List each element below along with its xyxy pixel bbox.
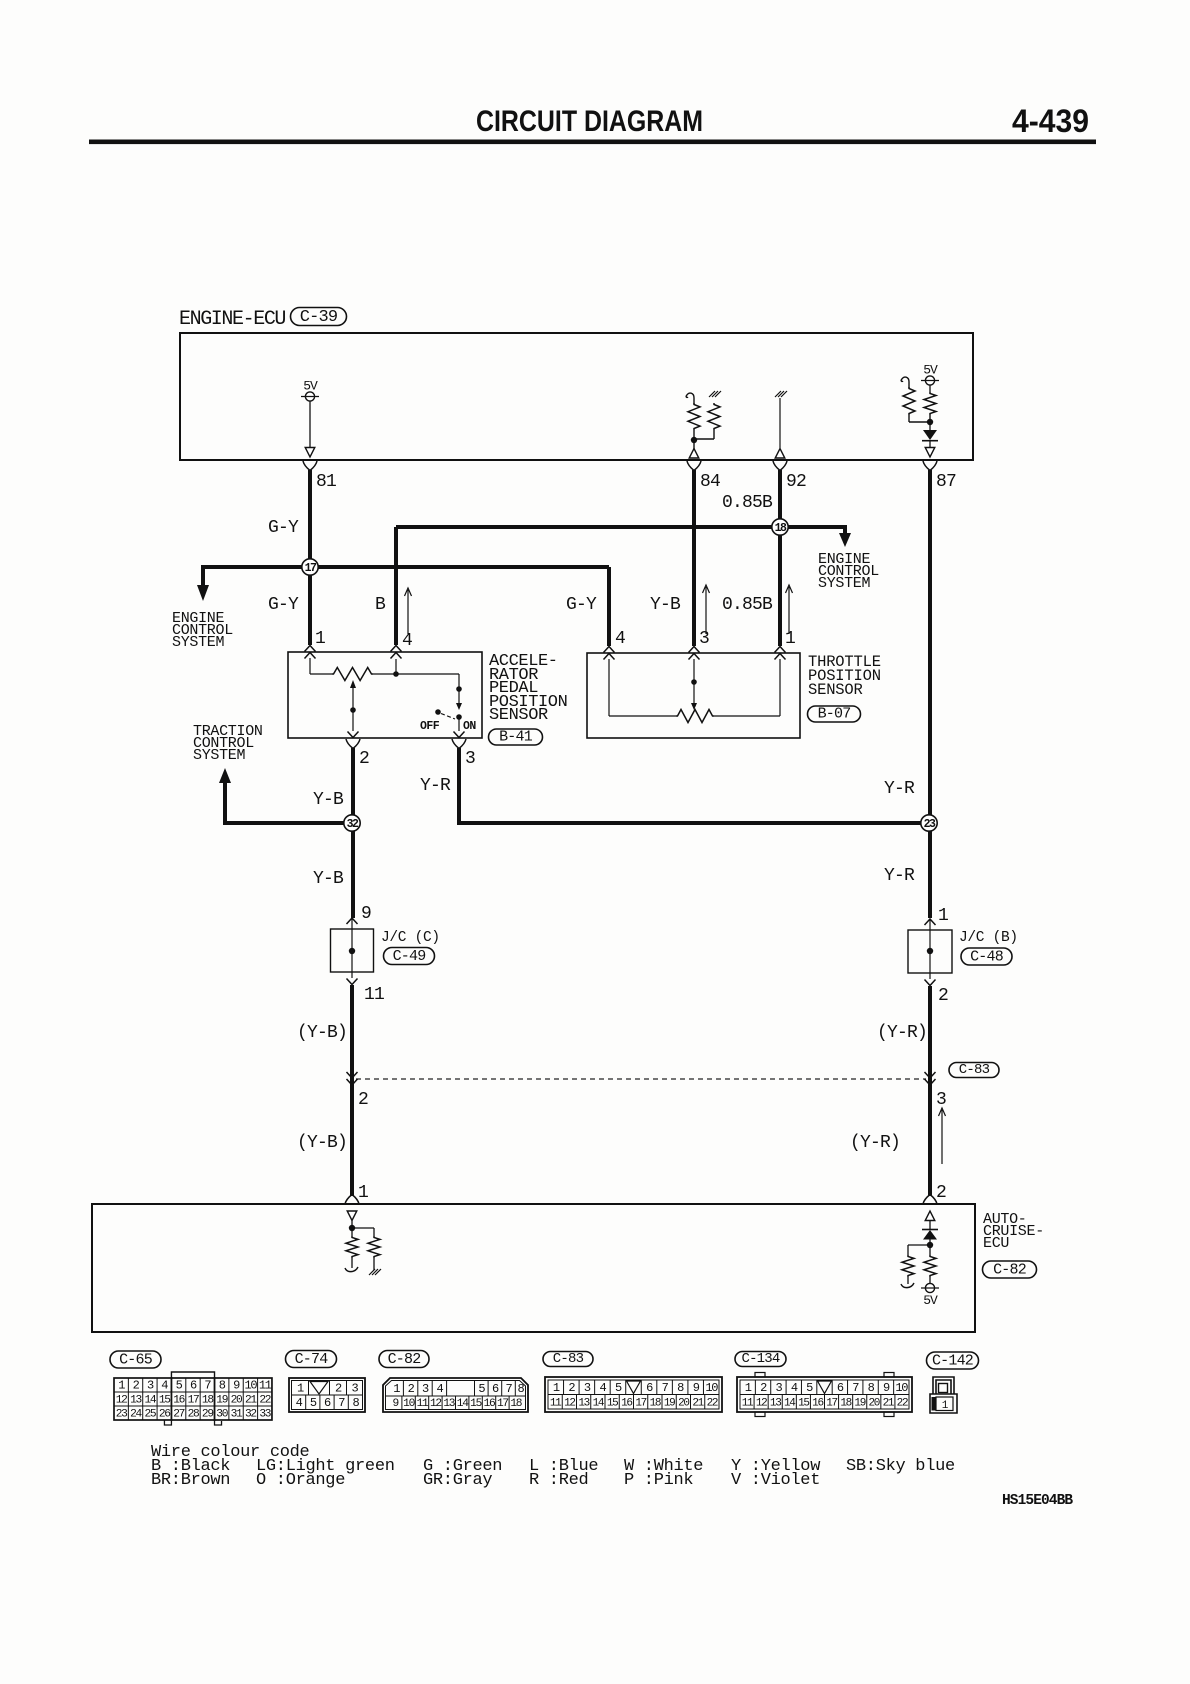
svg-text:26: 26 (159, 1409, 170, 1421)
svg-text:16: 16 (812, 1398, 823, 1410)
connector ref C-82 right (983, 1261, 1037, 1278)
header rule (89, 140, 1096, 145)
svg-text:4-439: 4-439 (1012, 103, 1089, 139)
svg-text:32: 32 (347, 818, 359, 831)
junction 17 (302, 559, 318, 575)
svg-text:2: 2 (936, 1183, 946, 1203)
svg-text:14: 14 (144, 1395, 156, 1407)
svg-text:5V: 5V (923, 363, 938, 378)
svg-text:1: 1 (785, 629, 795, 649)
resistor pair AC pin 2 (902, 1255, 914, 1277)
resistor pair at pin 87 (924, 392, 936, 415)
svg-text:18: 18 (840, 1398, 851, 1410)
J/C(C) junction dot (349, 948, 355, 954)
arrow to traction control system (219, 768, 231, 783)
J/C(C) pin 11 chevron (347, 979, 358, 985)
wire B horizontal from APS pin 4 to junction 18 and ECS arrow (396, 525, 845, 529)
svg-text:ECU: ECU (983, 1235, 1009, 1252)
svg-text:C-48: C-48 (970, 949, 1004, 966)
TPS pin 1 chevrons (775, 647, 786, 653)
svg-text:16: 16 (173, 1395, 184, 1407)
svg-text:18: 18 (510, 1398, 521, 1410)
svg-text:J/C (B): J/C (B) (959, 930, 1018, 946)
APS internal wiring (309, 658, 311, 674)
svg-text:92: 92 (786, 472, 806, 492)
svg-text:5V: 5V (923, 1293, 938, 1308)
svg-text:J/C (C): J/C (C) (381, 930, 440, 946)
junction dot pin 84 net (691, 437, 697, 443)
connector ref B-07 (808, 706, 861, 722)
J/C(B) pin 2 chevron (925, 980, 936, 986)
svg-text:C-83: C-83 (553, 1351, 584, 1367)
svg-text:81: 81 (316, 472, 336, 492)
svg-text:SB:Sky blue: SB:Sky blue (846, 1457, 955, 1476)
svg-text:22: 22 (897, 1398, 908, 1410)
svg-text:1: 1 (315, 629, 325, 649)
APS pin 2 exit (346, 739, 360, 749)
svg-text:(Y-B): (Y-B) (297, 1023, 347, 1043)
switch OFF contact and blade (435, 709, 441, 715)
connector C-142 drawing (933, 1377, 954, 1394)
svg-text:20: 20 (678, 1398, 689, 1410)
svg-text:18: 18 (202, 1395, 213, 1407)
APS potentiometer resistor (332, 668, 373, 681)
svg-text:15: 15 (607, 1398, 618, 1410)
wire 5V to pin 81 (309, 401, 311, 447)
svg-text:P :Pink: P :Pink (624, 1471, 693, 1490)
output arrow pin 81 (305, 448, 315, 458)
connector ref C-49 (384, 948, 435, 965)
svg-text:11: 11 (550, 1398, 562, 1410)
svg-text:10: 10 (705, 1381, 718, 1395)
svg-text:BR:Brown: BR:Brown (151, 1471, 230, 1490)
svg-text:23: 23 (924, 818, 936, 831)
TPS potentiometer resistor (676, 710, 714, 723)
TPS pin 4 chevrons (604, 647, 615, 653)
svg-text:87: 87 (936, 472, 956, 492)
svg-text:G-Y: G-Y (268, 518, 299, 538)
AUTO-CRUISE-ECU box C-82 (92, 1204, 975, 1332)
connector ref C-48 (961, 948, 1012, 965)
svg-text:Y-B: Y-B (650, 595, 681, 615)
input arrow AC pin 1 (347, 1211, 357, 1221)
connector C-134 drawing (737, 1377, 912, 1412)
connector C-82 drawing (383, 1378, 528, 1412)
svg-text:3: 3 (465, 749, 475, 769)
svg-text:C-49: C-49 (393, 948, 426, 965)
svg-text:SYSTEM: SYSTEM (193, 747, 246, 764)
svg-text:21: 21 (883, 1398, 895, 1410)
svg-text:1: 1 (358, 1183, 368, 1203)
junction 18 (772, 519, 788, 535)
svg-text:4: 4 (615, 629, 625, 649)
svg-text:17: 17 (826, 1398, 837, 1410)
connector C-74 drawing (289, 1378, 365, 1412)
switch ON contact (456, 714, 462, 720)
connector ref C-39 (291, 308, 347, 326)
svg-text:24: 24 (130, 1409, 142, 1421)
svg-text:ON: ON (463, 720, 476, 733)
pin 92 entry (773, 461, 787, 471)
svg-text:G-Y: G-Y (566, 595, 597, 615)
svg-text:33: 33 (259, 1409, 270, 1421)
connector ref C-142 (927, 1352, 979, 1369)
connector ref C-65 (110, 1351, 161, 1368)
J/C(C) pin 9 chevron (347, 918, 358, 924)
connector ref C-82 (379, 1351, 429, 1368)
wire (Y-R) J/C(B) to connector (928, 986, 932, 1196)
svg-text:15: 15 (159, 1395, 170, 1407)
svg-text:12: 12 (564, 1398, 575, 1410)
svg-text:30: 30 (216, 1409, 228, 1421)
svg-text:C-65: C-65 (119, 1352, 153, 1369)
wire pin 84 to TPS pin 3 (692, 470, 696, 646)
svg-text:GR:Gray: GR:Gray (423, 1471, 492, 1490)
connector crossing chevrons left (347, 1072, 358, 1078)
flow arrow at APS pin 4 (407, 590, 409, 634)
APS wiper arrow (350, 680, 356, 688)
J/C(C) box C-49 (331, 929, 374, 972)
svg-text:19: 19 (216, 1395, 227, 1407)
svg-text:4: 4 (402, 631, 412, 651)
svg-text:C-83: C-83 (959, 1062, 990, 1078)
svg-text:17: 17 (497, 1398, 508, 1410)
connector C-65 drawing (114, 1378, 272, 1420)
svg-text:25: 25 (144, 1409, 155, 1421)
J/C(B) junction dot (927, 948, 933, 954)
svg-text:18: 18 (650, 1398, 661, 1410)
APS pin 1 chevrons (305, 646, 316, 652)
svg-text:0.85B: 0.85B (722, 493, 773, 513)
input arrow pin 84 (689, 449, 699, 459)
arrow to engine control system left (201, 565, 205, 586)
svg-text:84: 84 (700, 472, 720, 492)
svg-text:1: 1 (938, 906, 948, 926)
APS idle switch leg (458, 674, 460, 703)
svg-text:16: 16 (484, 1398, 495, 1410)
svg-text:11: 11 (742, 1398, 754, 1410)
J/C(B) box C-48 (908, 930, 952, 973)
svg-text:C-142: C-142 (932, 1353, 973, 1370)
svg-text:C-134: C-134 (741, 1351, 779, 1367)
svg-text:11: 11 (417, 1398, 429, 1410)
svg-text:9: 9 (361, 904, 371, 924)
junction dot AC pin 1 net (349, 1225, 355, 1231)
svg-text:17: 17 (305, 562, 317, 575)
junction 32 (344, 815, 360, 831)
svg-text:32: 32 (245, 1409, 256, 1421)
traction control branch wire (225, 821, 353, 825)
svg-text:G-Y: G-Y (268, 595, 299, 615)
svg-text:C-82: C-82 (993, 1262, 1026, 1279)
connector ref C-74 (286, 1351, 337, 1368)
APS pin 3 exit (452, 739, 466, 749)
svg-text:HS15E04BB: HS15E04BB (1002, 1493, 1073, 1509)
svg-text:V :Violet: V :Violet (731, 1471, 820, 1490)
J/C(B) pin 1 chevron (925, 919, 936, 925)
APS box B-41 (288, 652, 482, 738)
connector crossing chevrons right (925, 1072, 936, 1078)
wire 0.85B pin 92 to TPS pin 1 (778, 470, 782, 646)
sense line above pin 92 (775, 391, 787, 397)
TPS wiper (693, 659, 695, 703)
connector ref B-41 (489, 729, 543, 745)
pin 87 entry (923, 461, 937, 471)
TPS pin 3 chevrons (689, 647, 700, 653)
svg-text:SYSTEM: SYSTEM (818, 575, 871, 592)
connector ref C-83 bottom (543, 1352, 593, 1367)
svg-text:12: 12 (116, 1395, 127, 1407)
TPS internal wiring (608, 659, 610, 716)
svg-text:3: 3 (936, 1090, 946, 1110)
svg-text:SYSTEM: SYSTEM (172, 634, 225, 651)
svg-text:13: 13 (770, 1398, 781, 1410)
svg-text:17: 17 (635, 1398, 646, 1410)
svg-text:10: 10 (245, 1379, 258, 1393)
auto-cruise pin 1 entry (345, 1195, 359, 1205)
svg-text:12: 12 (756, 1398, 767, 1410)
svg-text:14: 14 (593, 1398, 605, 1410)
output arrow pin 87 (925, 448, 935, 458)
input arrow pin 92 (775, 449, 785, 459)
svg-text:5V: 5V (303, 379, 318, 394)
wire G-Y pin 81 to APS pin 1 (308, 470, 312, 645)
junction 23 (921, 815, 937, 831)
svg-text:15: 15 (470, 1398, 481, 1410)
svg-text:13: 13 (443, 1398, 454, 1410)
APS pin 4 chevrons (391, 646, 402, 652)
wire G-Y horizontal through junction 17 (203, 565, 609, 569)
svg-text:Y-R: Y-R (884, 866, 915, 886)
intermediate connector dashed line C-83 (356, 1078, 926, 1080)
svg-text:C-74: C-74 (295, 1351, 329, 1368)
svg-text:O :Orange: O :Orange (256, 1471, 345, 1490)
svg-text:22: 22 (259, 1395, 270, 1407)
wire Y-R pin 87 to J/C(B) (928, 470, 932, 918)
flow arrow (Y-R) lower (941, 1110, 943, 1164)
svg-text:ENGINE-ECU: ENGINE-ECU (179, 308, 285, 331)
svg-text:27: 27 (173, 1409, 184, 1421)
svg-text:CIRCUIT DIAGRAM: CIRCUIT DIAGRAM (476, 105, 703, 138)
TPS box B-07 (587, 653, 800, 738)
svg-text:28: 28 (188, 1409, 199, 1421)
svg-text:2: 2 (938, 986, 948, 1006)
svg-text:10: 10 (403, 1398, 415, 1410)
svg-text:R :Red: R :Red (529, 1471, 588, 1490)
svg-text:15: 15 (798, 1398, 809, 1410)
connector ref C-134 (735, 1352, 786, 1367)
svg-text:9: 9 (392, 1398, 398, 1410)
svg-text:19: 19 (664, 1398, 675, 1410)
svg-text:SENSOR: SENSOR (489, 706, 548, 725)
svg-text:29: 29 (202, 1409, 213, 1421)
pin 84 entry (687, 461, 701, 471)
wire (Y-B) J/C(C) to connector (350, 985, 354, 1196)
svg-text:13: 13 (578, 1398, 589, 1410)
ECU box C-39 (180, 333, 973, 460)
svg-text:18: 18 (775, 522, 787, 535)
svg-text:11: 11 (364, 985, 384, 1005)
svg-text:11: 11 (259, 1379, 272, 1393)
svg-text:17: 17 (188, 1395, 199, 1407)
resistor pair above pin 84 (686, 393, 694, 404)
svg-text:Y-B: Y-B (313, 790, 344, 810)
svg-text:20: 20 (231, 1395, 243, 1407)
input arrow AC pin 2 (925, 1211, 935, 1221)
junction dot AC pin 2 net (927, 1242, 933, 1248)
svg-text:(Y-R): (Y-R) (850, 1133, 900, 1153)
svg-text:12: 12 (430, 1398, 441, 1410)
svg-text:C-39: C-39 (300, 308, 338, 327)
auto-cruise pin 2 entry (923, 1195, 937, 1205)
svg-text:20: 20 (868, 1398, 879, 1410)
APS pin 2 chevron (348, 732, 359, 738)
dot on wiper line (350, 707, 356, 713)
svg-text:B-41: B-41 (499, 729, 533, 746)
junction dot pin 87 net (927, 419, 933, 425)
svg-text:(Y-R): (Y-R) (877, 1023, 927, 1043)
svg-text:21: 21 (692, 1398, 704, 1410)
svg-text:(Y-B): (Y-B) (297, 1133, 347, 1153)
svg-text:23: 23 (116, 1409, 127, 1421)
svg-text:C-82: C-82 (388, 1351, 421, 1368)
svg-text:13: 13 (130, 1395, 141, 1407)
svg-text:22: 22 (707, 1398, 718, 1410)
connector C-83 drawing (545, 1377, 722, 1412)
wire Y-B APS pin2 to junction 32 (351, 748, 355, 918)
svg-text:Y-R: Y-R (420, 776, 451, 796)
svg-text:Y-R: Y-R (884, 779, 915, 799)
5V supply AC pin 2 (925, 1283, 934, 1292)
svg-text:2: 2 (358, 1090, 368, 1110)
svg-text:B: B (375, 595, 386, 615)
flow arrow at TPS pin 1 (788, 587, 790, 634)
APS pin 3 chevron (454, 732, 465, 738)
5V supply at pin 87 (925, 376, 934, 385)
svg-text:B-07: B-07 (818, 706, 851, 723)
svg-text:31: 31 (231, 1409, 243, 1421)
svg-text:16: 16 (621, 1398, 632, 1410)
wire Y-R APS pin3 to junction 23 (457, 748, 461, 821)
svg-text:Y-B: Y-B (313, 869, 344, 889)
connector ref C-83 mid (949, 1063, 999, 1078)
flow arrow at TPS pin 3 (705, 587, 707, 634)
svg-text:14: 14 (457, 1398, 469, 1410)
svg-text:14: 14 (784, 1398, 796, 1410)
svg-text:10: 10 (895, 1381, 908, 1395)
svg-text:SENSOR: SENSOR (808, 681, 863, 699)
resistor pair AC pin 1 (346, 1236, 358, 1258)
diode D at AC pin 2 (922, 1229, 938, 1231)
svg-text:19: 19 (854, 1398, 865, 1410)
svg-text:0.85B: 0.85B (722, 595, 773, 615)
diode D at pin 87 (923, 430, 937, 440)
svg-text:2: 2 (359, 749, 369, 769)
5V supply at pin 81 (305, 392, 314, 401)
svg-text:21: 21 (245, 1395, 257, 1407)
svg-text:OFF: OFF (420, 720, 440, 733)
svg-text:3: 3 (699, 629, 709, 649)
junction dot APS pin4 (393, 671, 399, 677)
pin 81 entry (303, 461, 317, 471)
